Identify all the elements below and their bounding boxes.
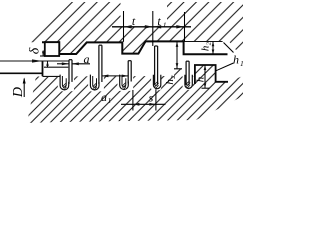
- svg-text:1: 1: [163, 21, 167, 30]
- svg-text:1: 1: [108, 96, 112, 105]
- svg-text:h₂: h₂: [164, 75, 176, 85]
- svg-text:a: a: [84, 52, 90, 66]
- svg-text:h₂: h₂: [200, 42, 212, 52]
- svg-text:h: h: [194, 76, 206, 82]
- svg-text:s: s: [149, 91, 154, 105]
- svg-text:1: 1: [240, 59, 243, 68]
- svg-text:a: a: [101, 90, 107, 104]
- svg-text:δ: δ: [28, 47, 43, 54]
- svg-text:h: h: [233, 53, 239, 67]
